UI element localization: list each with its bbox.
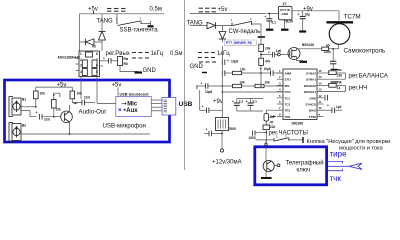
connector B1 (electret mic): [9, 97, 26, 117]
node dots: [35, 106, 37, 108]
svg-text:+: +: [327, 104, 329, 108]
switch Кнопка Несущая: [256, 134, 304, 144]
svg-text:К3: К3: [92, 45, 96, 49]
svg-text:22k: 22k: [270, 125, 276, 129]
regulator U4 7805: [216, 86, 236, 149]
wire into soundcard: [97, 103, 116, 105]
svg-text:тире: тире: [330, 150, 348, 159]
wire to ground: [265, 172, 267, 178]
wire VCC row to pin4: [222, 91, 283, 93]
wire rail to 78L05: [267, 13, 279, 15]
resistor R8 10k: [233, 81, 246, 88]
svg-text:13: 13: [319, 88, 323, 92]
node terminal at border: [265, 143, 267, 145]
svg-text:VCC: VCC: [285, 90, 292, 94]
svg-text:1: 1: [80, 52, 82, 56]
capacitor C8 10µ8: [222, 59, 238, 66]
svg-text:10k: 10k: [240, 81, 246, 85]
wire paddle contact lines: [328, 161, 349, 170]
resistor R2 10k: [34, 87, 46, 107]
wire +5v feed bus: [36, 86, 73, 88]
trimmer R13 22k рег.ЧАСТОТЫ: [255, 125, 276, 146]
wire arrow to pin8: [271, 115, 276, 117]
capacitor C18: [204, 128, 223, 137]
right pins: [317, 73, 324, 116]
svg-text:12: 12: [319, 94, 323, 98]
svg-text:10k: 10k: [265, 81, 271, 85]
left pins: [277, 73, 283, 116]
capacitor C17: [200, 105, 222, 114]
wire switch to divider column: [252, 24, 262, 36]
svg-text:1µ0: 1µ0: [276, 49, 282, 53]
regulator U3 78L05: [279, 2, 294, 23]
wire horizontal between drops: [80, 41, 103, 43]
svg-text:78L05: 78L05: [284, 19, 293, 23]
right of IC: trimmer R10 22k рег.БАЛАНСА: [324, 68, 346, 79]
wire mic1 row: [21, 106, 36, 108]
op-to IC U1 ADG2188: [76, 51, 104, 77]
svg-text:10k: 10k: [40, 92, 46, 96]
wire from switch to rail: [116, 14, 118, 21]
wire usb drop: [199, 90, 201, 110]
svg-text:GND: GND: [282, 12, 290, 16]
svg-text:ADG2188AA48: ADG2188AA48: [58, 56, 81, 60]
wire top +5v rail: [80, 13, 165, 15]
svg-text:BSS138: BSS138: [302, 43, 314, 47]
svg-text:15: 15: [319, 75, 323, 79]
capacitor C6 10µ8: [298, 11, 311, 31]
svg-text:Rм: Rм: [124, 57, 129, 61]
svg-text:Rб: Rб: [124, 62, 128, 66]
svg-text:ЛГ: ЛГ: [270, 121, 274, 125]
capacitor C16 0,1: [246, 98, 257, 111]
svg-text:В2: В2: [22, 124, 26, 128]
transistor Q2 BSS138: [278, 43, 315, 61]
wire cap loop: [237, 97, 263, 99]
ground: [135, 71, 143, 73]
ground under 78L05: [284, 19, 286, 29]
pin number labels right: [319, 69, 323, 116]
svg-text:6: 6: [96, 64, 98, 68]
wire +5v to soundcard: [117, 88, 119, 97]
resistor R5 220k: [297, 44, 339, 55]
svg-text:+5v: +5v: [88, 6, 98, 12]
svg-text:MO: MO: [285, 84, 290, 88]
svg-text:+: +: [246, 100, 248, 104]
svg-text:Самоконтроль: Самоконтроль: [344, 48, 386, 55]
resistor R1: [118, 57, 129, 67]
svg-text:+: +: [265, 15, 267, 19]
resistor R7 10n: [233, 68, 262, 75]
svg-text:10µ8: 10µ8: [205, 90, 212, 94]
USB plug connector: [162, 98, 176, 116]
resistor R12 4k7: [264, 110, 283, 125]
ground in box: [261, 177, 272, 179]
paddle (key lever): [349, 163, 362, 169]
svg-text:Х7: Х7: [283, 2, 287, 6]
svg-text:STO: STO: [285, 78, 292, 82]
wire to cap: [21, 111, 37, 117]
svg-text:Aux: Aux: [126, 108, 138, 114]
svg-text:GND: GND: [190, 64, 204, 70]
svg-text:FT80: FT80: [309, 115, 316, 119]
svg-text:22k: 22k: [56, 108, 62, 112]
node dots cluster: [222, 85, 224, 87]
ground under cap: [299, 30, 306, 32]
pin number labels left: [279, 69, 281, 116]
svg-text:8: 8: [96, 52, 98, 56]
resistor R6 47k: [259, 58, 271, 85]
svg-text:рег.ЧАСТОТЫ: рег.ЧАСТОТЫ: [269, 130, 308, 137]
wire IC drops into box: [80, 77, 82, 100]
svg-text:USB: USB: [179, 101, 193, 108]
resistor R14 10k (divider top): [259, 37, 271, 58]
svg-text:0,1: 0,1: [272, 21, 277, 25]
svg-text:вм: вм: [337, 68, 342, 72]
capacitor C11 10µ8 (pin1 row): [260, 67, 284, 76]
svg-text:AMB: AMB: [285, 72, 293, 76]
svg-text:WAVEX2: WAVEX2: [304, 84, 317, 88]
svg-text:10,0: 10,0: [44, 118, 50, 122]
svg-text:+: +: [103, 57, 105, 61]
svg-text:3: 3: [80, 64, 82, 68]
svg-text:Mic: Mic: [127, 102, 138, 108]
svg-text:рег.НЧ: рег.НЧ: [349, 84, 368, 91]
capacitor C7: [330, 48, 336, 73]
capacitor bank C (3 blocking caps): [107, 9, 126, 12]
net flag PTT_DRIVER_PA: [225, 40, 257, 46]
diode D3 (points right): [207, 22, 216, 29]
termination bar: [258, 36, 265, 38]
diode D4 (points down): [219, 32, 226, 43]
svg-text:0,5м: 0,5м: [150, 6, 162, 12]
svg-text:7: 7: [96, 58, 98, 62]
wire ground bus inside box: [21, 133, 150, 135]
resistor R4 22k: [52, 93, 62, 117]
svg-text:TR1: TR1: [285, 109, 291, 113]
resistor R3 10k: [70, 87, 82, 103]
wire +5v rail right: [190, 13, 266, 15]
svg-text:+: +: [201, 82, 203, 86]
svg-text:14: 14: [319, 81, 323, 85]
svg-text:+: +: [36, 111, 38, 115]
svg-text:47k: 47k: [265, 60, 271, 64]
capacitor C4 10,0: [72, 96, 95, 106]
capacitor C3 10,0: [36, 111, 65, 122]
wire TANG row: [190, 25, 232, 27]
speaker TC7M (self-monitor): [327, 11, 354, 45]
svg-text:В1: В1: [22, 98, 26, 102]
svg-text:GND: GND: [143, 68, 157, 74]
svg-text:10µ8: 10µ8: [264, 67, 271, 71]
svg-text:ПА: ПА: [337, 80, 342, 84]
ground under Q2: [300, 61, 308, 63]
wire vertical c8-c10: [221, 46, 223, 60]
svg-text:10k: 10k: [77, 92, 83, 96]
diode D2 (points left) К3: [86, 39, 96, 49]
wire to ground: [120, 66, 138, 72]
svg-text:1µ0: 1µ0: [336, 105, 342, 109]
switch SSB-тангента: [116, 17, 154, 27]
wire diode branch down: [222, 26, 224, 32]
enclosure: [255, 147, 327, 185]
svg-text:11: 11: [319, 100, 322, 104]
svg-text:1кГц: 1кГц: [217, 51, 230, 57]
svg-text:0,1: 0,1: [239, 100, 244, 104]
svg-text:Audio-Out: Audio-Out: [79, 109, 107, 116]
diode D1 (vertical, anode down): [99, 32, 106, 41]
svg-text:TANG: TANG: [97, 18, 114, 24]
svg-text:Кнопка "Несущая" для проверки: Кнопка "Несущая" для проверки: [307, 139, 391, 145]
wire 9v: [293, 10, 340, 12]
wire divider to Q2 gate: [261, 54, 272, 56]
switch CW-педаль: [231, 17, 253, 26]
svg-text:16: 16: [319, 69, 323, 73]
capacitor C5 0,1: [265, 13, 277, 29]
svg-text:2: 2: [80, 58, 82, 62]
svg-text:10µ8: 10µ8: [231, 60, 238, 64]
svg-text:SYNA1: SYNA1: [306, 78, 316, 82]
wire section divider: [184, 0, 186, 170]
svg-text:22k: 22k: [337, 73, 343, 77]
ground tick under GND label: [202, 72, 207, 74]
svg-text:10n: 10n: [240, 68, 246, 72]
svg-text:+: +: [268, 51, 270, 55]
capacitor C14 1µ0: [324, 104, 343, 114]
svg-text:BIAS: BIAS: [309, 109, 316, 113]
svg-text:CW-педаль: CW-педаль: [229, 29, 261, 35]
svg-text:5: 5: [96, 70, 98, 74]
svg-text:1000: 1000: [249, 136, 256, 140]
capacitor C10: [222, 70, 232, 76]
svg-text:WAVEX1: WAVEX1: [304, 90, 317, 94]
svg-text:USB Soundcard: USB Soundcard: [120, 92, 150, 96]
transistor Q1: [61, 105, 73, 134]
capacitor C19 100,0: [249, 131, 256, 141]
wire vertical left drop: [79, 14, 81, 51]
resistor R9 10k: [242, 81, 284, 88]
svg-text:TC1: TC1: [285, 96, 291, 100]
svg-text:+: +: [227, 59, 229, 63]
capacitor C12 10µ8: [197, 82, 233, 95]
svg-text:USB-микрофон: USB-микрофон: [103, 123, 146, 130]
USB Soundcard module: [116, 92, 152, 116]
svg-text:7805: 7805: [229, 127, 236, 131]
svg-text:+9v: +9v: [213, 99, 223, 105]
svg-text:TC2: TC2: [285, 103, 291, 107]
svg-text:10,0: 10,0: [84, 96, 90, 100]
svg-text:+12v/30мА: +12v/30мА: [212, 160, 242, 166]
ground under C5: [266, 29, 273, 31]
wire speaker drop: [338, 45, 340, 49]
trimmer R11 1k рег.НЧ: [324, 80, 346, 91]
capacitor C15 0,1: [232, 98, 243, 111]
capacitor C9 1µ0: [268, 49, 281, 57]
svg-text:GND: GND: [309, 96, 317, 100]
net dash GND: [199, 61, 203, 63]
svg-text:+5v: +5v: [57, 83, 67, 89]
svg-text:+: +: [260, 67, 262, 71]
svg-text:тчк: тчк: [330, 174, 342, 183]
connector B2 (electret mic): [9, 123, 26, 143]
svg-text:рег.БАЛАНСА: рег.БАЛАНСА: [349, 72, 389, 79]
svg-text:+5v: +5v: [218, 7, 228, 13]
net dash row 2: [132, 57, 136, 59]
svg-text:SSB-тангента: SSB-тангента: [120, 28, 159, 34]
capacitor C13 at pin12: [325, 95, 327, 101]
svg-text:0,1: 0,1: [253, 100, 258, 104]
wire into box: [265, 140, 267, 161]
svg-text:0,5м: 0,5м: [170, 51, 182, 57]
transistor Q3 (key transistor): [263, 160, 280, 171]
svg-text:+: +: [206, 128, 208, 132]
svg-text:+: +: [202, 105, 204, 109]
svg-text:SYNA2: SYNA2: [306, 72, 316, 76]
svg-text:+: +: [232, 100, 234, 104]
capacitor C2 +: [100, 57, 118, 64]
svg-text:1кГц: 1кГц: [151, 51, 164, 57]
wire TANG vertical: [101, 14, 103, 51]
svg-text:SR2266: SR2266: [292, 122, 304, 126]
svg-text:SYNCO: SYNCO: [305, 103, 316, 107]
svg-text:PTT_DRIVER_PA: PTT_DRIVER_PA: [226, 41, 252, 45]
svg-text:Телеграфный: Телеграфный: [286, 160, 324, 167]
pin names: [285, 72, 293, 119]
net dash row 1 + 1кГц 0,5м: [132, 52, 136, 54]
terminal +12v: [220, 149, 223, 152]
svg-text:+5v: +5v: [112, 83, 122, 89]
svg-text:вб: вб: [326, 44, 330, 48]
svg-text:TC7M: TC7M: [344, 14, 361, 21]
svg-text:10: 10: [319, 106, 323, 110]
svg-text:✕: ✕: [118, 108, 122, 114]
svg-text:1k: 1k: [337, 86, 341, 90]
wire module to USB plug (4 lines): [152, 100, 163, 111]
svg-text:220k: 220k: [324, 50, 331, 54]
svg-text:4: 4: [80, 70, 82, 74]
svg-text:+: +: [298, 13, 300, 17]
svg-text:ключ: ключ: [297, 168, 311, 174]
wire arrow to Q1 collector: [74, 102, 78, 104]
svg-text:TR2: TR2: [285, 115, 291, 119]
svg-text:10µ: 10µ: [305, 13, 311, 17]
capacitor bank right: [199, 8, 217, 12]
enclosure box: [5, 80, 170, 142]
net dash 1кГц right: [198, 52, 202, 54]
